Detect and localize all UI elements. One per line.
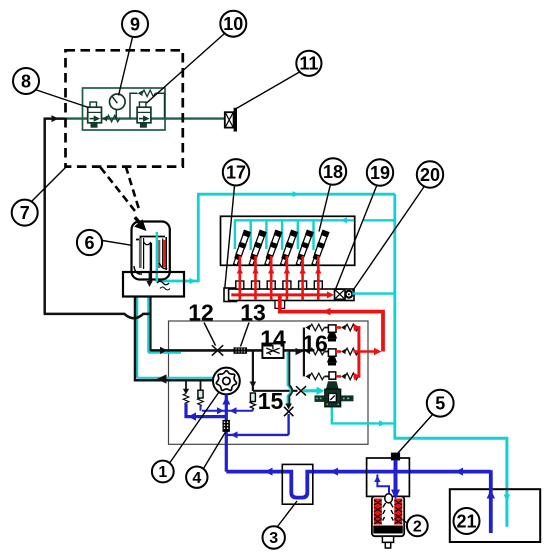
wire: red riser joining rows 1 and 3 — [357, 326, 360, 378]
wire: cyan hug under main line — [148, 352, 181, 354]
leader 13 — [241, 323, 250, 347]
svg-text:10: 10 — [223, 14, 243, 34]
arrow on drain (left) — [231, 431, 238, 438]
red arrow in manifold — [327, 291, 334, 298]
gauge 9 — [110, 94, 126, 110]
wire: blue suction from tank — [489, 470, 493, 533]
wire: cyan supply inside valve cover — [234, 220, 395, 250]
wire: thick blue drain from valve A — [186, 404, 226, 417]
pump housing enclosure rect — [169, 321, 369, 444]
injection pressure control valve (solenoid) — [315, 381, 354, 407]
arrow on loop top (right) — [293, 191, 300, 197]
wire: cyan loop right dropper — [393, 194, 396, 438]
wire: valve B drain to blue header — [200, 406, 202, 411]
wire: thick blue into filter element — [394, 460, 398, 491]
injection actuation connector 11 — [225, 112, 234, 127]
arrow on cooler outlet (right) — [190, 278, 197, 284]
svg-text:1: 1 — [158, 464, 167, 481]
svg-text:11: 11 — [299, 54, 318, 74]
arrows on supply (left) — [265, 468, 273, 476]
wire: black branch 15 to control valve — [253, 390, 298, 392]
wire: black segment into dashed box — [45, 117, 66, 120]
valve X2 — [284, 407, 293, 416]
svg-text:7: 7 — [20, 203, 30, 223]
wire: far-left return horizontal with hop — [44, 314, 151, 318]
wire: blue supply left of water trap — [226, 470, 293, 474]
leader 12 — [204, 323, 216, 346]
filter media left — [374, 499, 382, 525]
SECTION: callouts — [31, 34, 433, 527]
check valve B — [200, 380, 202, 390]
water trap 3 box — [282, 464, 313, 504]
leader 7 — [31, 167, 66, 202]
wire: green regulator line — [64, 117, 225, 119]
arrow down above X2 — [285, 404, 292, 410]
leader 6 — [102, 241, 131, 246]
wire: cooler-to-main-line riser (black+cyan pair) — [147, 297, 149, 353]
leader 3 — [278, 501, 298, 527]
svg-text:13: 13 — [240, 300, 266, 326]
spring right of valve 8 — [102, 116, 107, 122]
arrow down to 15 — [250, 382, 257, 389]
injectors 1-6 — [232, 230, 329, 266]
svg-text:6: 6 — [84, 233, 94, 253]
fuel manifold left end box — [224, 288, 237, 302]
red up arrows on injector lines — [237, 267, 322, 274]
svg-text:12: 12 — [188, 300, 214, 326]
wire: thin blue filter outlet — [377, 475, 389, 496]
arrow on cover cyan line (left) — [341, 217, 348, 223]
wire: 15 drain to blue header — [252, 409, 254, 411]
fuel filter head — [367, 458, 410, 496]
squiggle in base — [157, 281, 169, 285]
filter inlet port ellipse — [385, 494, 393, 503]
wire: blue drain to pump suction — [227, 434, 289, 436]
wire: cyan link from regulator 20 — [352, 292, 395, 294]
filter media right — [394, 499, 402, 525]
wire: cyan loop left riser — [197, 194, 200, 282]
dashed leader lines to cooler — [101, 167, 138, 214]
fuel manifold bar 19 — [229, 289, 354, 301]
wire: red injector return lines — [240, 256, 318, 300]
filter bottom band — [373, 526, 403, 534]
wire: blue header into pump suction riser — [202, 410, 253, 412]
svg-text:3: 3 — [269, 530, 278, 547]
inlet screen 4 — [223, 420, 230, 432]
leader 18 — [319, 184, 331, 231]
leader 11 — [236, 72, 299, 109]
arrow into block 16 (right) — [296, 348, 304, 355]
svg-text:5: 5 — [435, 394, 445, 414]
valve 14 box — [262, 344, 283, 359]
wire: branch from main line down (with hop) — [288, 352, 291, 407]
check valve 15 body — [250, 393, 255, 402]
leader 17 — [225, 186, 235, 288]
leader 9 — [119, 37, 133, 95]
wire: blue through filter head — [367, 470, 409, 474]
arrow right on regulator feed — [52, 115, 59, 122]
row 1 of 16 — [305, 324, 360, 342]
valve 10 pilot line — [130, 93, 138, 118]
wire: suction line cooler-to-pump (cyan+black pair) — [136, 297, 138, 378]
arrow on suction line (left) — [157, 374, 167, 383]
cyan core line in cooler — [156, 232, 158, 282]
filter drain fitting — [382, 536, 393, 542]
svg-text:15: 15 — [258, 388, 284, 414]
row 2 of 16 — [305, 348, 381, 366]
red tell-tale in cooler — [163, 240, 165, 267]
svg-text:21: 21 — [456, 511, 476, 531]
wire: cyan loop top — [197, 193, 395, 196]
leader 10 — [147, 34, 225, 104]
manifold tabs — [236, 281, 322, 289]
screen filter 13 — [234, 347, 248, 353]
wire: cyan drain from control valve — [332, 407, 395, 424]
red arrow on return loop (left) — [323, 308, 331, 316]
transfer pump 1 — [213, 368, 240, 395]
pressure regulator 20 (orifice circle) — [346, 291, 353, 298]
valve 10 — [137, 102, 151, 127]
wire: red line inside manifold — [231, 293, 330, 296]
cooler internals — [134, 237, 167, 284]
water trap 3 blue U-tube — [283, 472, 313, 498]
arrow on main line (right) — [160, 347, 168, 354]
filter flow arrows — [383, 503, 394, 521]
svg-text:20: 20 — [420, 165, 440, 185]
arrow down inside base — [149, 273, 151, 282]
svg-text:9: 9 — [130, 14, 140, 34]
svg-text:4: 4 — [192, 470, 201, 487]
fuel filter 2 canister — [372, 496, 404, 536]
svg-text:14: 14 — [260, 326, 286, 352]
arrow up into pump — [222, 397, 230, 405]
leader 5 — [398, 414, 434, 454]
wire: cyan bottom run to tank — [394, 438, 507, 526]
cooler mounting base — [123, 272, 184, 297]
wire: pump suction riser — [225, 394, 228, 471]
svg-text:16: 16 — [302, 331, 328, 357]
wire: red manifold drop and return loop — [280, 296, 383, 352]
valve X1 before control valve — [296, 386, 306, 395]
wire: blue supply from tank, segment right of water trap — [309, 470, 491, 474]
leader 4 — [204, 432, 226, 469]
svg-text:18: 18 — [323, 162, 343, 182]
wire: far-left return drop — [43, 118, 46, 314]
leader 2 — [403, 520, 408, 524]
valve 8 — [88, 102, 102, 127]
part labels — [188, 300, 328, 415]
valve cover rect — [221, 216, 355, 265]
regulator green box — [83, 88, 166, 130]
valve 12 (x-symbol) — [212, 345, 223, 355]
SECTION: cyan return loop — [157, 194, 507, 527]
leader 19 — [335, 185, 377, 291]
leader 1 — [170, 392, 219, 463]
wire: block 16 left header — [303, 328, 305, 377]
ECM cooler canister 6 — [132, 222, 170, 280]
cyan arrow into control valve — [303, 389, 318, 392]
dashed housing 7 — [66, 50, 183, 166]
wire: blue drain down from X2 — [287, 414, 289, 435]
spring of 15 — [250, 402, 255, 409]
red drop box under manifold — [275, 301, 285, 309]
arrow on control valve drain (right) — [379, 420, 386, 426]
svg-text:17: 17 — [226, 163, 246, 183]
svg-text:8: 8 — [21, 71, 31, 91]
row 3 of 16 — [305, 372, 360, 380]
solid arrow into cooler — [135, 217, 140, 223]
arrows into riser on header — [217, 407, 224, 414]
leader 20 — [353, 186, 425, 291]
wire: cyan drops to injectors — [234, 221, 236, 249]
svg-text:19: 19 — [370, 163, 390, 183]
sensor square 5 on filter head — [391, 453, 400, 461]
callout numbers — [20, 14, 477, 531]
pressure regulator 20 (x-box) — [335, 289, 346, 299]
fuel tank 21 — [450, 489, 540, 542]
svg-text:2: 2 — [413, 519, 422, 536]
check valve A (left drain) — [185, 380, 187, 390]
leader 8 — [35, 90, 89, 108]
wire: main black supply line — [150, 349, 304, 352]
arrow on cyan tank line (down) — [504, 495, 511, 502]
wire: cyan from cooler base to loop riser — [157, 280, 199, 283]
wire: drop from main line to check valve 15 — [252, 350, 254, 391]
